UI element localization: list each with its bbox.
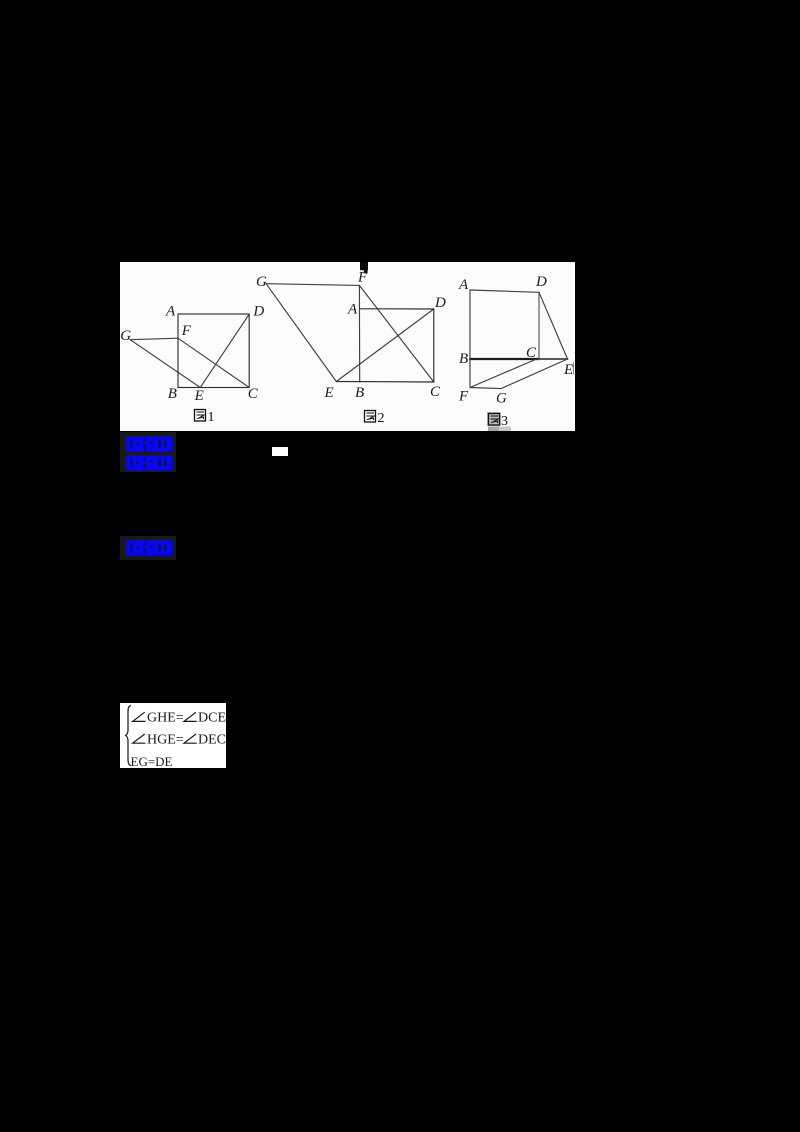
wire B-F fig3 xyxy=(469,359,471,388)
blue block 2: one line xyxy=(120,536,176,560)
svg-text:F: F xyxy=(357,270,368,286)
wire F-C fig1 xyxy=(178,338,249,387)
wire B-C bold fig3 xyxy=(470,358,539,360)
wire G-E fig3 xyxy=(501,359,568,389)
svg-text:DCE: DCE xyxy=(198,711,226,726)
wire E-D fig2 xyxy=(336,309,434,382)
white dash xyxy=(272,447,288,456)
angle GHE = angle DCE xyxy=(133,712,146,721)
wire G-F fig1 xyxy=(130,338,178,340)
svg-text:A: A xyxy=(347,302,358,318)
caption 图3 xyxy=(487,412,511,431)
wire F-C fig2 xyxy=(359,285,433,382)
svg-text:B: B xyxy=(355,385,364,401)
wire F-C fig3 xyxy=(470,359,537,388)
svg-text:B: B xyxy=(168,386,177,402)
math system box xyxy=(120,703,226,768)
svg-text:G: G xyxy=(120,328,131,344)
svg-text:B: B xyxy=(459,351,468,367)
wire E-D fig1 xyxy=(200,314,249,387)
svg-text:F: F xyxy=(181,323,192,339)
caption 图1 xyxy=(195,410,215,426)
svg-text:1: 1 xyxy=(208,410,215,425)
svg-text:D: D xyxy=(535,274,547,290)
svg-text:E: E xyxy=(324,385,334,401)
svg-text:C: C xyxy=(430,384,441,400)
wire D-right fig3 xyxy=(538,292,540,360)
black tick above F fig2 xyxy=(360,262,368,270)
wire G-E fig1 xyxy=(130,340,200,388)
svg-text:HGE=: HGE= xyxy=(147,732,184,747)
blue block 1: two lines xyxy=(120,432,176,472)
square ABCD fig1 xyxy=(178,314,249,388)
wire F-G fig3 xyxy=(470,388,501,389)
wire C-E fig3 xyxy=(539,358,568,360)
wire G-F fig2 xyxy=(266,284,359,286)
wire A-B fig3 xyxy=(469,290,471,359)
svg-text:G: G xyxy=(496,391,507,407)
wire D-E fig3 xyxy=(539,292,568,359)
figures svg xyxy=(120,262,575,431)
left curly brace xyxy=(126,705,131,766)
svg-text:C: C xyxy=(526,345,537,361)
svg-text:C: C xyxy=(248,386,259,402)
wire D-C fig2 xyxy=(433,309,435,382)
svg-text:A: A xyxy=(458,277,469,293)
svg-text:D: D xyxy=(434,295,446,311)
svg-text:E: E xyxy=(563,362,573,378)
white figure panel xyxy=(120,262,575,431)
svg-text:F: F xyxy=(458,389,469,405)
svg-text:EG=DE: EG=DE xyxy=(131,754,173,768)
caption 图2 xyxy=(365,411,385,427)
wire E-C fig2 xyxy=(336,381,434,384)
svg-text:G: G xyxy=(256,274,267,290)
angle HGE = angle DEC xyxy=(133,734,146,743)
svg-text:DEC: DEC xyxy=(198,732,226,747)
wire A-D fig3 xyxy=(470,290,539,292)
wire F-B fig2 xyxy=(358,285,360,382)
svg-text:GHE=: GHE= xyxy=(147,711,184,726)
svg-text:A: A xyxy=(165,304,176,320)
cursor tick right of E fig3 xyxy=(573,362,575,374)
wire A-D fig2 xyxy=(360,308,434,310)
svg-text:2: 2 xyxy=(378,411,385,426)
svg-text:D: D xyxy=(252,304,264,320)
wire G-E fig2 xyxy=(266,284,336,382)
svg-text:E: E xyxy=(194,388,204,404)
